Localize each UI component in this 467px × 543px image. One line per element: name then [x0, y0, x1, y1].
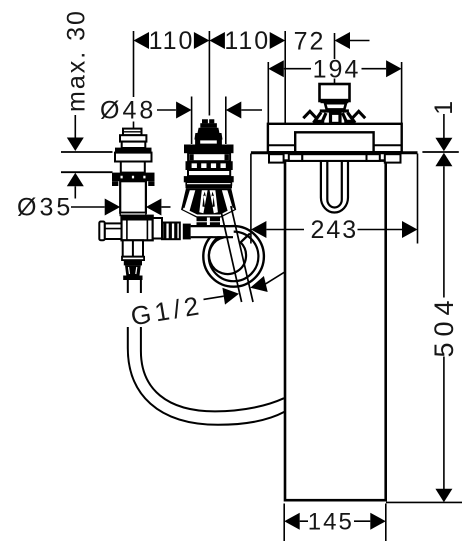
- tee body: [122, 216, 153, 241]
- diverter slit arrows: [202, 192, 205, 208]
- diverter band row 2 (black with slots): [186, 161, 233, 170]
- dim 243 arrows: [251, 221, 418, 238]
- dim Ø48 text background: [97, 97, 157, 122]
- svg-text:145: 145: [308, 509, 354, 536]
- spout knob: [320, 84, 350, 101]
- diverter band row 6 (thin black): [186, 185, 233, 188]
- below-deck tab D: [367, 154, 380, 161]
- left valve step 1: [120, 135, 146, 141]
- reference line deck-right: [422, 151, 458, 153]
- below-deck tab B: [289, 154, 303, 161]
- sBox body: [285, 161, 386, 501]
- diverter feet: [197, 218, 221, 227]
- dim 145 arrows: [284, 513, 386, 530]
- dim 243 line: [266, 229, 402, 231]
- tee lower neck: [123, 240, 143, 256]
- label G1/2 text background: [125, 293, 208, 327]
- spout black bar 2: [320, 109, 349, 112]
- spout spring feet: [314, 120, 325, 124]
- spout spring legs: [314, 113, 356, 124]
- escutcheon lip lines: [268, 144, 402, 146]
- pipe connector black nut: [183, 224, 191, 240]
- dim 504 bottom reference line: [386, 501, 462, 503]
- left valve collar (Ø48): [115, 153, 152, 162]
- dim 145 extension lines: [284, 504, 386, 542]
- escutcheon recess: [295, 132, 373, 152]
- left valve neck: [121, 162, 145, 173]
- dim 110 right arrows: [209, 32, 285, 49]
- flexible hose to sBox (outer edge): [128, 280, 285, 425]
- pipe top edge: [191, 225, 234, 227]
- tee left hex nut: [105, 223, 122, 239]
- deck line: [251, 151, 418, 154]
- secure hose line A: [220, 208, 241, 302]
- svg-text:1: 1: [430, 101, 458, 115]
- pipe bottom edge: [191, 236, 233, 238]
- svg-text:max. 30: max. 30: [63, 9, 91, 112]
- hose coupling black body: [124, 260, 142, 265]
- dim 110: extension line B (diverter centre): [208, 31, 210, 116]
- svg-text:504: 504: [429, 294, 459, 357]
- hose coupling bottom flange: [123, 276, 142, 281]
- overflow pipe inner: [327, 161, 342, 208]
- diverter band row 4 (black): [184, 176, 234, 182]
- diverter skirt rim: [183, 209, 234, 216]
- diverter band row 3 (white): [188, 170, 230, 176]
- svg-text:110: 110: [149, 27, 195, 55]
- left valve step 2: [122, 142, 146, 148]
- left valve cylinder (Ø35): [120, 181, 146, 213]
- diverter skirt bell: [181, 188, 236, 217]
- diverter skirt white panels: [184, 190, 195, 212]
- dim 72 outside arrow with tail: [335, 32, 351, 49]
- left valve flange tabs: [112, 181, 155, 186]
- diverter cap: [200, 123, 217, 128]
- spout spring clip left chevron: [303, 111, 316, 118]
- diverter band row 1 (white with end ticks): [188, 153, 230, 161]
- left valve flange black band: [112, 173, 155, 182]
- hose coupling thin flange: [122, 257, 144, 260]
- spout neck: [325, 103, 346, 109]
- tee right striped nut: [162, 223, 180, 240]
- dim 72: extension line D (spout centre): [334, 33, 336, 84]
- hose loop outer circle: [203, 226, 264, 287]
- dim 1 stem and arrows: [443, 114, 445, 138]
- svg-text:72: 72: [294, 28, 326, 56]
- dim 504 bottom arrow: [435, 489, 452, 503]
- pipe from tee to loop (white fill): [191, 227, 234, 236]
- tee left end cap: [99, 222, 104, 241]
- dim 145 line: [300, 520, 371, 522]
- label G1/2 leader 2: [266, 272, 285, 284]
- dim 504 line: [443, 166, 445, 489]
- dim 194 line: [284, 68, 386, 70]
- below-deck tab E: [385, 154, 401, 162]
- diverter valve cap bumps: [202, 119, 214, 123]
- hose coupling nut: [125, 265, 141, 275]
- left shut-off valve: stem cap: [123, 129, 142, 136]
- diverter step 2: [194, 133, 222, 140]
- svg-text:110: 110: [224, 27, 270, 55]
- diverter step 1: [198, 128, 220, 133]
- dim 243 extension lines: [250, 154, 252, 244]
- svg-text:Ø48: Ø48: [100, 97, 156, 125]
- label G1/2 leader 1: [204, 296, 224, 299]
- dim Ø48 extension lines: [191, 97, 193, 145]
- left valve collar black band: [115, 148, 152, 153]
- svg-text:Ø35: Ø35: [17, 194, 73, 222]
- dim max. 30 lines and arrows: [74, 115, 76, 138]
- svg-text:243: 243: [310, 216, 358, 244]
- flexible hose to sBox (inner edge): [141, 280, 284, 411]
- SECTION: components: [99, 84, 417, 500]
- diverter band row 5 (thin white): [186, 182, 231, 185]
- left valve cylinder bottom ring: [120, 213, 146, 216]
- hose loop middle turn: [209, 232, 259, 282]
- secure hose line B: [231, 206, 253, 302]
- diverter skirt white slits: [199, 190, 207, 213]
- dim 194 arrows: [268, 60, 401, 77]
- svg-text:194: 194: [313, 56, 361, 84]
- dim 110 left arrows: [134, 32, 210, 49]
- below-deck centre bar: [302, 154, 366, 161]
- reference line tile-level: [61, 171, 113, 173]
- escutcheon plate outer: [268, 124, 402, 152]
- dim Ø48 leader and arrows: [157, 109, 176, 111]
- dim 110 right: extension line C: [284, 31, 286, 124]
- below-deck tab A: [269, 154, 284, 162]
- dim 110 left: extension line A: [133, 31, 135, 129]
- spout clip centre: [329, 113, 342, 124]
- hose loop inner spiral: [209, 234, 250, 275]
- tee top black band: [122, 216, 153, 221]
- tee right step: [153, 218, 162, 239]
- diverter white collar: [196, 140, 221, 145]
- dim Ø35 leader and arrows: [71, 206, 105, 208]
- spout knob black bar: [321, 99, 349, 103]
- dim 194: extension lines: [267, 62, 269, 124]
- diverter flange (Ø48): [184, 145, 234, 154]
- reference line deck-left: [61, 151, 113, 153]
- spout spring clip right chevron: [352, 111, 365, 118]
- overflow pipe outer: [321, 161, 348, 212]
